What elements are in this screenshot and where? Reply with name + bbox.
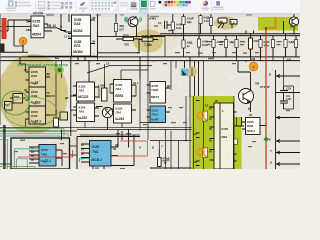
vertical wire x89 upper: [88, 61, 90, 82]
size button: [131, 2, 137, 3]
wire top cut text smudges: [46, 14, 252, 17]
wire from green to U14: [236, 117, 244, 126]
wires bottom mid: [62, 130, 192, 170]
wire top-left rails: [0, 14, 72, 46]
svg-text:К155: К155: [222, 127, 229, 131]
box around U12: [77, 137, 140, 170]
resistor bank top row: [182, 14, 213, 34]
svg-text:06: 06: [113, 147, 116, 151]
IC U11 cyan flip-flop left: [29, 145, 62, 167]
svg-text:К155: К155: [92, 145, 99, 149]
svg-text:05: 05: [92, 40, 96, 44]
IC U2 tall dual section: [64, 15, 96, 61]
value label smudges on resistor bank: [14, 26, 294, 170]
svg-text:С1: С1: [158, 21, 162, 25]
edit colors: [203, 1, 208, 6]
svg-text:1 КВ: 1 КВ: [98, 84, 104, 88]
svg-text:ПАМ: ПАМ: [152, 88, 159, 92]
counter IC U13 inside green: [205, 99, 237, 169]
wires inside oscillator: [20, 58, 55, 127]
narrow box right of osc: [54, 110, 59, 127]
DA box pair in beige top right: [218, 18, 237, 28]
svg-text:№Д6: №Д6: [31, 81, 39, 85]
svg-text:Д6: Д6: [115, 143, 119, 147]
svg-text:7,5: 7,5: [231, 21, 236, 25]
node junction dots top-left: [13, 26, 62, 47]
transistor Q1 top: [128, 16, 138, 30]
cyan blob arrow mid: [181, 69, 189, 77]
green-area pin stubs left column: [194, 101, 212, 166]
resistor R4 8.2k: [171, 14, 182, 34]
transistor Q3 top far right: [289, 14, 298, 34]
svg-text:Р1Р: Р1Р: [123, 33, 129, 37]
junction dots scattered: [55, 33, 295, 130]
svg-text:8,2к: 8,2к: [176, 26, 182, 30]
capacitor C1: [158, 21, 171, 29]
2x2 IC block: U5: [73, 82, 99, 101]
svg-text:7М: 7М: [251, 57, 256, 61]
highlighter: big green rectangle (counter IC): [192, 96, 242, 169]
svg-text:МСВ.1: МСВ.1: [92, 158, 103, 162]
svg-text:Д6: Д6: [47, 72, 51, 76]
capacitor C2 C3 right: [280, 57, 294, 109]
IC U1 K155LA8: [26, 12, 56, 38]
svg-text:ЛА8: ЛА8: [31, 74, 37, 78]
paste button: [8, 1, 13, 6]
svg-text:Д4: Д4: [167, 84, 171, 88]
selection rectangle big left: [11, 138, 70, 169]
transistor Q4 between IC block: [96, 107, 113, 130]
svg-text:МСВ1: МСВ1: [73, 29, 83, 33]
color1 selected green: [139, 0, 148, 12]
cut/copy: [15, 2, 17, 4]
svg-text:МСВ4: МСВ4: [73, 50, 83, 54]
color2: [150, 1, 155, 6]
IC U9 (DD): [147, 82, 171, 104]
svg-text:04 1: 04 1: [133, 81, 139, 85]
small box right of oscillator: [60, 112, 68, 120]
wire left column verticals: [8, 27, 62, 110]
orange query circle 2: [249, 62, 257, 70]
orange L wire drawn later; black verticals under green strip: [246, 21, 284, 34]
palette 10x2: [159, 1, 191, 9]
black box left edge: [0, 44, 5, 53]
wire mid verticals to lower band: [140, 14, 176, 149]
tools 3x2: [61, 2, 72, 9]
svg-text:02: 02: [24, 88, 27, 92]
svg-text:С2Х: С2Х: [286, 87, 291, 91]
svg-text:ЛА1: ЛА1: [79, 110, 85, 114]
green ellipse outline annotation: [2, 91, 29, 115]
svg-text:Зк: Зк: [164, 161, 168, 165]
IC U14 right of green: [242, 113, 267, 135]
svg-text:ТМ2: ТМ2: [92, 150, 99, 154]
svg-text:ЕЛЗ: ЕЛЗ: [74, 44, 80, 48]
wire lower rails extra: [0, 123, 192, 132]
svg-text:КТ315Г: КТ315Г: [260, 85, 270, 89]
wire resistor-bank verticals: [184, 24, 297, 61]
svg-text:ЕВ 10: ЕВ 10: [47, 24, 56, 28]
small box below: [5, 102, 13, 111]
svg-text:Задающий генератор: Задающий генератор: [17, 62, 69, 67]
svg-text:19: 19: [105, 107, 109, 111]
svg-text:1Дк: 1Дк: [187, 20, 193, 24]
svg-text:МС554: МС554: [33, 12, 44, 16]
IC U10 cyan highlighted: [147, 106, 171, 123]
svg-text:ЛА5: ЛА5: [33, 24, 40, 28]
svg-text:С25: С25: [286, 97, 291, 101]
U8: [110, 104, 136, 123]
svg-text:06: 06: [47, 91, 50, 95]
svg-text:ЛА1: ЛА1: [79, 89, 85, 93]
svg-text:750: 750: [124, 43, 129, 47]
top right rail pair: [150, 34, 300, 36]
beige blob next to cyan: [188, 67, 197, 77]
wire orange L in green strip: [267, 18, 276, 29]
wires around IC block: [85, 57, 148, 128]
misc left edge wires bottom: [4, 125, 5, 169]
resistor bank second row: [182, 34, 298, 57]
svg-text:4,2к: 4,2к: [204, 19, 210, 23]
svg-text:б: б: [270, 161, 272, 165]
svg-text:12: 12: [106, 62, 110, 66]
green small highlight ellipse: [54, 66, 64, 75]
IC U12 cyan flip-flop mid: [81, 130, 119, 167]
svg-text:?: ?: [22, 40, 25, 45]
crop/resize/rotate: [48, 1, 50, 3]
paper stain washes: [53, 24, 280, 157]
wire teal nested bottom left: [0, 136, 60, 169]
green area vertical wires: [190, 61, 237, 169]
middle small component between IC block: [98, 82, 107, 101]
transistor Q2 KT315: [238, 61, 270, 112]
svg-text:11 01: 11 01: [64, 35, 71, 39]
resistor R5 bottom with label: [158, 149, 170, 167]
highlighter: big beige ellipse (oscillator area): [0, 54, 68, 134]
svg-text:№Д2.1: №Д2.1: [41, 159, 52, 163]
svg-text:б: б: [139, 146, 141, 150]
wire red main vertical: [265, 29, 267, 170]
wire bottom rail segments: [0, 146, 77, 164]
IC column right of osc U4: [65, 96, 78, 110]
select: [39, 2, 45, 6]
svg-text:7М: 7М: [255, 82, 260, 86]
svg-text:ЛА6.3: ЛА6.3: [246, 129, 256, 133]
green dot on red line: [263, 136, 269, 142]
U7: [110, 80, 139, 103]
svg-text:СДЗ: СДЗ: [289, 40, 295, 44]
resistor R2 750 horizontal: [116, 33, 140, 46]
orange query circle 1: [19, 37, 27, 45]
svg-text:Д5: Д5: [65, 96, 69, 100]
svg-text:МЕУ1: МЕУ1: [151, 95, 160, 99]
svg-text:Б: Б: [152, 146, 154, 150]
svg-text:ЛА1: ЛА1: [116, 87, 122, 91]
oscillator tall IC column U3: [24, 67, 50, 124]
svg-text:ЛАН: ЛАН: [152, 113, 158, 117]
wire left lower: [0, 45, 300, 61]
svg-text:Г: Г: [162, 145, 164, 149]
highlighter: beige blob on DA box top right: [214, 17, 238, 30]
scan speckle texture: [1, 16, 300, 169]
svg-text:№294: №294: [115, 117, 124, 121]
svg-text:107: 107: [119, 28, 124, 32]
shapes gallery: [90, 1, 119, 11]
svg-text:ЛА1: ЛА1: [116, 111, 122, 115]
wire red bottom left horizontal: [18, 150, 73, 157]
svg-text:К155: К155: [33, 20, 41, 24]
svg-text:ЛЕВ1: ЛЕВ1: [114, 94, 124, 98]
wire green bus upper: [0, 129, 64, 138]
node dot at red-orange bend: [265, 27, 267, 29]
svg-text:М554: М554: [32, 33, 41, 37]
terminal bracket right: [269, 70, 300, 169]
paint3d: [216, 1, 220, 5]
wire red mid bottom: [111, 141, 148, 157]
U6: [73, 103, 99, 122]
svg-text:ИЕ2: ИЕ2: [222, 135, 228, 139]
wire cyan elbow at U12: [80, 159, 90, 163]
highlighter: beige ellipse around R near transistor: [133, 30, 163, 53]
svg-text:04: 04: [249, 113, 252, 117]
rails into green: [77, 96, 192, 169]
svg-text:?: ?: [252, 65, 255, 70]
svg-text:МС223: МС223: [78, 95, 89, 99]
teal blobs around Q1: [124, 17, 128, 23]
brushes: [80, 2, 86, 6]
wire green bottom: [0, 167, 35, 170]
diagonal wire mid left: [87, 66, 152, 74]
svg-text:№Д6.1: №Д6.1: [31, 120, 42, 124]
svg-text:4Дк: 4Дк: [229, 40, 235, 44]
orange transistor glyph 2 in green: [197, 147, 207, 158]
svg-text:ЛАВ: ЛАВ: [31, 114, 38, 118]
vertical wire x71: [70, 57, 72, 136]
wire bottom of transistor cluster: [98, 30, 141, 53]
wires mid right verticals: [185, 57, 199, 96]
svg-text:К155: К155: [41, 148, 48, 152]
resistor R3 in beige ellipse horizontal: [139, 34, 158, 47]
highlighter: green strip top right: [258, 17, 298, 31]
green ellipse outline annotation 2: [5, 97, 57, 127]
resistor R1 47k vertical: [114, 14, 124, 36]
svg-text:№292: №292: [78, 116, 87, 120]
wire mid rail y36.4: [98, 35, 166, 37]
wire teal bus mid: [0, 134, 68, 138]
svg-text:Р2Р: Р2Р: [142, 34, 148, 38]
small box crystal: [10, 94, 26, 104]
orange transistor glyph 1 in green: [197, 111, 207, 122]
wire vertical x97.5: [97, 14, 99, 56]
outline/fill dropdowns: [114, 2, 116, 4]
red marker bar top left: [2, 18, 7, 39]
scan edge shadow left: [0, 14, 1, 125]
svg-text:08: 08: [92, 16, 96, 20]
